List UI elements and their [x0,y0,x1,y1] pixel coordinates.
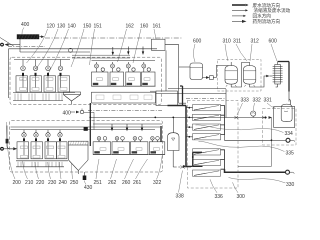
svg-text:338: 338 [176,194,185,200]
svg-text:600: 600 [269,39,278,45]
svg-text:120: 120 [47,24,56,30]
legend line 1 wastewater flow [232,4,249,7]
unit v1 [92,62,109,86]
unit u2 [30,60,42,93]
chemical dosing pipe 333/332/331 [226,117,267,119]
leader 322 [157,154,163,180]
membrane module m5 [192,149,221,158]
lower unit x2 [112,137,130,155]
thick feed elbow lower group [186,152,203,166]
tank 331 [281,99,292,122]
svg-text:251: 251 [94,180,103,186]
leader 338 [179,171,183,193]
vessel 310 [225,62,237,87]
leader 210 [23,161,28,179]
dash-dot water line top [45,37,183,39]
svg-text:230: 230 [48,180,57,186]
leader 240 [60,162,62,179]
permeate channel under cluster2 [92,92,156,103]
svg-text:300: 300 [237,194,246,200]
manifold line A [9,48,158,50]
solid enclosure corner [238,118,272,167]
feed pipe lower c2 [93,123,162,125]
left drop pipe [8,49,10,98]
lower unit x1 [93,137,111,155]
svg-text:151: 151 [94,24,103,30]
arrow into exchanger [266,75,269,78]
svg-text:200: 200 [13,180,22,186]
manifold pump circle [69,48,73,52]
svg-text:334: 334 [285,131,294,137]
svg-text:600: 600 [193,39,202,45]
mid valve circle on chemical line [80,110,83,113]
svg-text:430: 430 [84,185,93,191]
leader 300 [233,182,239,193]
line into tank600A [179,66,190,68]
box 322 [156,91,178,106]
membrane module m6 [193,159,221,165]
svg-text:130: 130 [57,24,66,30]
collect manifold lower [221,150,225,169]
vessel 310-311 connector [231,63,250,88]
chem pipe down to manifold [84,112,94,129]
vessel 311 outlet [250,76,267,87]
inlet hatched bar 400 [17,35,39,40]
tank600A outlet arrow [203,77,207,79]
collect manifold upper [221,106,225,135]
svg-text:330: 330 [286,182,295,188]
lower unit x3 [130,137,148,155]
svg-text:400: 400 [63,111,72,117]
return pipes [156,89,226,94]
floor lower cluster2 [93,154,165,156]
leader 120 [27,29,48,63]
unit v2 [110,62,124,86]
port 330 ring [286,170,295,174]
svg-text:240: 240 [59,180,68,186]
lower unit w2 [31,130,43,159]
tank 326 (dome) [168,133,180,151]
feed pipe upper cluster2 [92,60,156,62]
thick drop right of lower cluster2 [160,126,162,142]
dash-dot return line [186,98,226,100]
left return pipe with valve block [7,126,13,149]
valve block on manifold [84,127,88,131]
feed drops with chemical tips [112,47,145,56]
manifold lines lower [11,126,161,128]
leader 310 [225,44,228,61]
tank 600A [190,63,203,80]
svg-text:262: 262 [108,180,117,186]
left inlet line [9,44,21,46]
port 334 ring [286,138,295,142]
junction dot on chem pipe [265,117,267,119]
leader 336 [210,179,217,193]
svg-text:312: 312 [251,39,260,45]
left manifold stubs upper [186,108,193,137]
svg-text:220: 220 [36,180,45,186]
dash-dot level line left [8,46,45,48]
leader 200 [6,122,15,179]
arrow into tank331 [269,116,273,119]
pump 430 [83,172,87,180]
leader 252 [111,159,117,179]
svg-text:333: 333 [241,98,250,104]
top rail upper cluster1 [14,59,70,61]
leader 251 [96,159,99,179]
membrane module m2 [188,114,220,120]
svg-text:162: 162 [126,24,135,30]
vessels dashed box [218,60,262,92]
leader 150 [71,29,84,67]
tank 331 box [274,107,295,128]
leader 311 [236,44,247,61]
lower inlet arrow [13,147,17,150]
svg-text:332: 332 [253,98,262,104]
tank326 outlet + valve 338 [173,151,177,168]
lower inlet line [4,148,13,150]
floor upper cluster1 [13,92,75,94]
pipe to vessel 310 [213,66,228,78]
leader 260 [125,159,134,179]
main feed drop from bar [19,39,21,52]
lower unit x4 [149,137,165,155]
thick permeate drop to lower funnel [89,103,91,146]
leader 230 [48,162,51,179]
leader 220 [35,162,39,179]
leader 162 [118,29,127,62]
svg-text:210: 210 [25,180,34,186]
leader 400 [22,28,24,35]
leader 600 left [194,44,196,62]
pump 332 [251,111,256,118]
leader 430 [85,181,87,185]
leader 160 [133,29,141,63]
line down from vessels to chem pipe [225,89,227,118]
thick line from box322 [168,105,187,107]
leader 312 [250,44,252,61]
unit u1 [16,60,28,93]
clarifier funnel [64,92,81,105]
long vertical right of cluster2 [165,45,186,103]
legend line 2 concentrate flow [232,9,248,11]
leader 161 [154,29,156,39]
left inlet port ring [0,43,4,47]
legend line 3 return water [232,15,246,17]
svg-text:322: 322 [153,180,162,186]
svg-text:311: 311 [233,39,241,45]
unit v3 [126,62,141,86]
leader 335 [199,141,285,151]
leader 600 right [271,44,277,61]
leader 250 [72,163,73,179]
return line from exchanger down right edge [288,92,290,102]
leader 334 [196,125,284,133]
arrow on thick line [183,165,187,168]
membrane module m1 [188,105,220,111]
svg-text:336: 336 [215,194,224,200]
cross headers [72,55,130,58]
unit v4 [142,62,156,86]
chemical drops lower c2 [111,124,143,131]
upper dashed enclosure [10,57,162,104]
line from 161 box down [165,50,167,91]
manifold line B [20,51,90,53]
svg-text:250: 250 [70,180,79,186]
leader 130 [36,29,58,69]
arrow after bar [40,36,43,38]
diagonal feed line into bar [0,38,14,47]
lower clarifier funnel [69,141,89,174]
exchanger top pipe [278,61,289,63]
unit u3 [44,60,56,93]
heat exchanger 600B [273,62,283,88]
svg-text:400: 400 [21,22,30,28]
membrane module m4 [188,134,220,140]
concentrate thick out line [225,169,286,172]
svg-text:140: 140 [68,24,77,30]
pump square [210,76,214,80]
svg-text:331: 331 [264,98,273,104]
svg-text:310: 310 [223,39,232,45]
lower dashed enclosure [10,121,163,173]
leader 330 [229,178,286,184]
tank326 feed from chem pipe [172,117,174,133]
svg-text:161: 161 [153,24,162,30]
svg-text:150: 150 [83,24,92,30]
membrane module m7 [193,170,221,176]
lower unit w3 [45,130,57,159]
leader 140 [49,29,69,73]
svg-text:261: 261 [133,180,142,186]
dashed box around membrane stack [188,100,239,188]
lower unit w4 [57,130,68,159]
svg-text:160: 160 [140,24,149,30]
leader 151 [90,29,95,65]
legend line 4 chemical flow [232,20,247,23]
permeate line to junction [225,135,272,141]
svg-text:335: 335 [286,151,295,157]
valve 333 [234,116,238,119]
svg-text:260: 260 [122,180,131,186]
vessel 311 [244,66,256,87]
dash-dot level line mid [88,110,162,112]
unit u4 [58,60,70,93]
line junction to port 334 [272,139,286,141]
lower unit w1 [17,130,29,159]
exchanger bottom pipe [276,86,278,88]
svg-text:药剂流动方向: 药剂流动方向 [253,18,281,25]
left inlet arrow [5,43,9,46]
membrane module m3 [188,124,220,130]
valve 331b [262,116,266,119]
long chemical pipe [90,116,226,118]
thick drop right of tankA [180,86,183,106]
hatch under lower floor [18,162,62,167]
inlet port lower [0,147,4,151]
weir hatch under floor [15,94,62,101]
floor lower cluster1 [16,160,68,162]
leader 261 [136,159,148,179]
box 161 [152,39,166,50]
floor upper cluster2 [92,85,156,87]
dashed box right ports [263,109,297,145]
